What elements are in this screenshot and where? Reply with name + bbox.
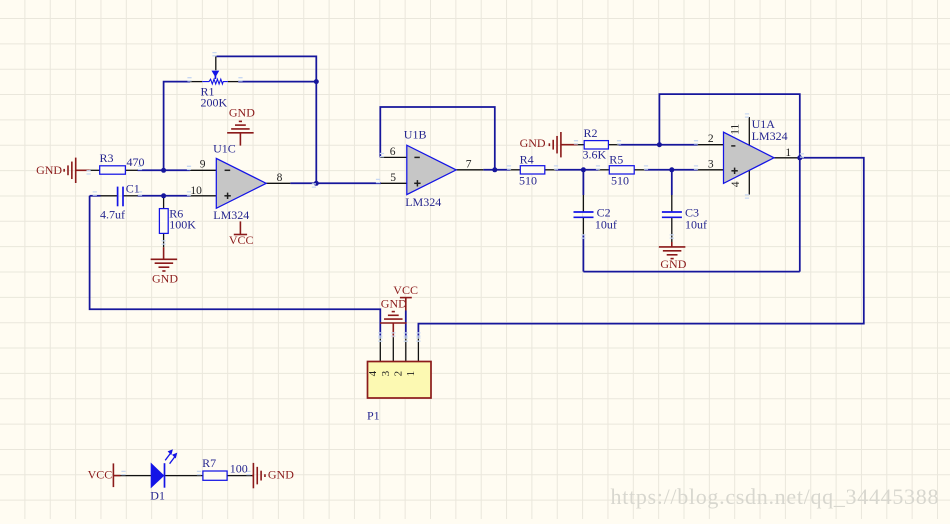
svg-text:4: 4 bbox=[730, 181, 742, 187]
svg-text:VCC: VCC bbox=[88, 468, 113, 482]
svg-text:VCC: VCC bbox=[229, 233, 254, 247]
svg-text:7: 7 bbox=[466, 159, 472, 171]
svg-text:11: 11 bbox=[729, 123, 741, 134]
svg-text:U1B: U1B bbox=[404, 128, 427, 142]
svg-text:4.7uf: 4.7uf bbox=[100, 208, 125, 222]
svg-text:LM324: LM324 bbox=[752, 129, 788, 143]
svg-text:3: 3 bbox=[708, 158, 714, 170]
svg-text:510: 510 bbox=[519, 173, 537, 187]
svg-text:https://blog.csdn.net/qq_34445: https://blog.csdn.net/qq_34445388 bbox=[611, 484, 940, 509]
svg-text:9: 9 bbox=[200, 159, 206, 171]
svg-text:GND: GND bbox=[268, 468, 294, 482]
svg-text:10uf: 10uf bbox=[685, 217, 707, 231]
svg-text:510: 510 bbox=[611, 173, 629, 187]
svg-text:GND: GND bbox=[381, 297, 407, 311]
svg-text:D1: D1 bbox=[150, 489, 165, 503]
svg-text:VCC: VCC bbox=[393, 283, 418, 297]
svg-text:470: 470 bbox=[127, 155, 145, 169]
svg-text:10: 10 bbox=[190, 185, 202, 197]
svg-text:2: 2 bbox=[708, 133, 714, 145]
svg-text:8: 8 bbox=[277, 172, 283, 184]
svg-text:R4: R4 bbox=[520, 152, 534, 166]
svg-text:GND: GND bbox=[660, 257, 686, 271]
svg-text:R2: R2 bbox=[584, 126, 598, 140]
svg-text:3: 3 bbox=[380, 370, 392, 376]
svg-text:GND: GND bbox=[36, 163, 62, 177]
svg-text:100: 100 bbox=[230, 461, 248, 475]
svg-text:10uf: 10uf bbox=[595, 217, 617, 231]
svg-text:200K: 200K bbox=[201, 96, 228, 110]
svg-text:R7: R7 bbox=[202, 456, 216, 470]
svg-text:5: 5 bbox=[390, 172, 396, 184]
svg-text:4: 4 bbox=[367, 370, 379, 376]
svg-text:1: 1 bbox=[405, 371, 417, 377]
svg-text:GND: GND bbox=[229, 106, 255, 120]
svg-text:2: 2 bbox=[392, 371, 404, 377]
svg-text:U1C: U1C bbox=[213, 142, 236, 156]
svg-text:LM324: LM324 bbox=[405, 195, 441, 209]
svg-text:C1: C1 bbox=[126, 181, 140, 195]
svg-text:GND: GND bbox=[152, 272, 178, 286]
svg-text:R5: R5 bbox=[609, 152, 623, 166]
svg-text:6: 6 bbox=[390, 146, 396, 158]
svg-text:100K: 100K bbox=[169, 217, 196, 231]
svg-text:R3: R3 bbox=[100, 151, 114, 165]
svg-text:P1: P1 bbox=[367, 409, 380, 423]
svg-text:GND: GND bbox=[520, 136, 546, 150]
svg-text:LM324: LM324 bbox=[213, 208, 249, 222]
svg-text:1: 1 bbox=[785, 147, 791, 159]
svg-text:3.6K: 3.6K bbox=[583, 147, 607, 161]
